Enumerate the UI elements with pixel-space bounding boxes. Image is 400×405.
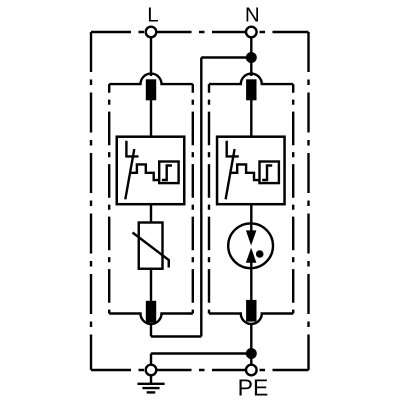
svg-text:PE: PE [238, 375, 269, 401]
svg-text:N: N [245, 4, 260, 27]
thermal disconnector U2 box [217, 137, 284, 205]
triggered spark gap F1 trigger electrode dot [256, 250, 264, 258]
plug-in contact socket bottom of module 1 [109, 314, 193, 325]
enclosure dash-dot border right edge [307, 32, 309, 370]
thermal disconnector U1 square wave link [130, 164, 159, 180]
wire top contact to disconnector box module 2 [250, 100, 252, 137]
contact pin top module 1 [146, 79, 156, 100]
svg-text:L: L [147, 4, 158, 27]
thermal disconnector U2 fixed contact [227, 141, 239, 157]
wire middle column to varistor branch bottom [151, 335, 201, 337]
thermal disconnector U2 trip element step symbol [262, 166, 272, 181]
wire bottom contact module 1 down [150, 324, 152, 337]
wire bottom contact module 2 to PE junction [250, 324, 252, 354]
wire spark gap to bottom contact module 2 [250, 262, 252, 300]
thermal disconnector U2 switch blade [226, 149, 235, 199]
wire top contact to disconnector box module 1 [150, 100, 152, 137]
protection module 1 dashed border right edge [192, 84, 194, 313]
wire disconnector to varistor [150, 204, 152, 222]
thermal disconnector U2 square wave link [230, 164, 259, 180]
wire junction N to middle column [201, 56, 251, 58]
thermal disconnector U1 trip element box [159, 162, 178, 184]
contact pin bottom module 1 [146, 301, 156, 323]
varistor RV1 diagonal stroke [133, 233, 169, 268]
thermal disconnector U1 switch blade [125, 149, 134, 199]
plug-in contact socket top of module 1 [109, 74, 193, 85]
protection module 2 dashed border left edge [208, 84, 210, 313]
terminal N [246, 27, 257, 38]
wire varistor to bottom contact module 1 [150, 269, 152, 301]
terminal PE [246, 365, 257, 376]
enclosure dash-dot border left edge [90, 32, 92, 370]
junction dot PE [246, 348, 257, 359]
triggered spark gap F1 circle [228, 223, 273, 268]
terminal ground [146, 365, 157, 376]
contact pin bottom module 2 [246, 300, 256, 322]
plug-in contact socket bottom of module 2 [209, 314, 293, 324]
triggered spark gap F1 lower electrode arrow [246, 248, 257, 263]
thermal disconnector U2 trip element box [260, 162, 279, 184]
protection module 2 dashed border right edge [292, 84, 294, 313]
wire middle column vertical [200, 58, 202, 337]
contact pin top module 2 [246, 79, 256, 100]
enclosure dash-dot border bottom edge [91, 369, 309, 371]
wire N terminal to junction [250, 32, 252, 58]
terminal L [146, 27, 157, 38]
thermal disconnector U1 trip element step symbol [162, 166, 172, 181]
protection module 1 dashed border left edge [108, 84, 110, 313]
triggered spark gap F1 upper electrode arrow [246, 230, 257, 245]
junction dot N [246, 52, 257, 63]
thermal disconnector U1 box [117, 137, 185, 205]
ground symbol [137, 375, 164, 392]
wire PE junction to PE terminal [250, 354, 252, 366]
wire junction to top contact module 2 [250, 58, 252, 77]
wire PE bus horizontal [151, 352, 251, 354]
enclosure dash-dot border top edge [91, 31, 309, 33]
thermal disconnector U1 fixed contact [126, 141, 138, 157]
wire L terminal to top contact [150, 32, 152, 76]
wire disconnector to spark gap [250, 204, 252, 232]
wire ground stub [150, 354, 152, 366]
varistor RV1 body [139, 223, 163, 269]
plug-in contact socket top of module 2 [209, 74, 293, 84]
